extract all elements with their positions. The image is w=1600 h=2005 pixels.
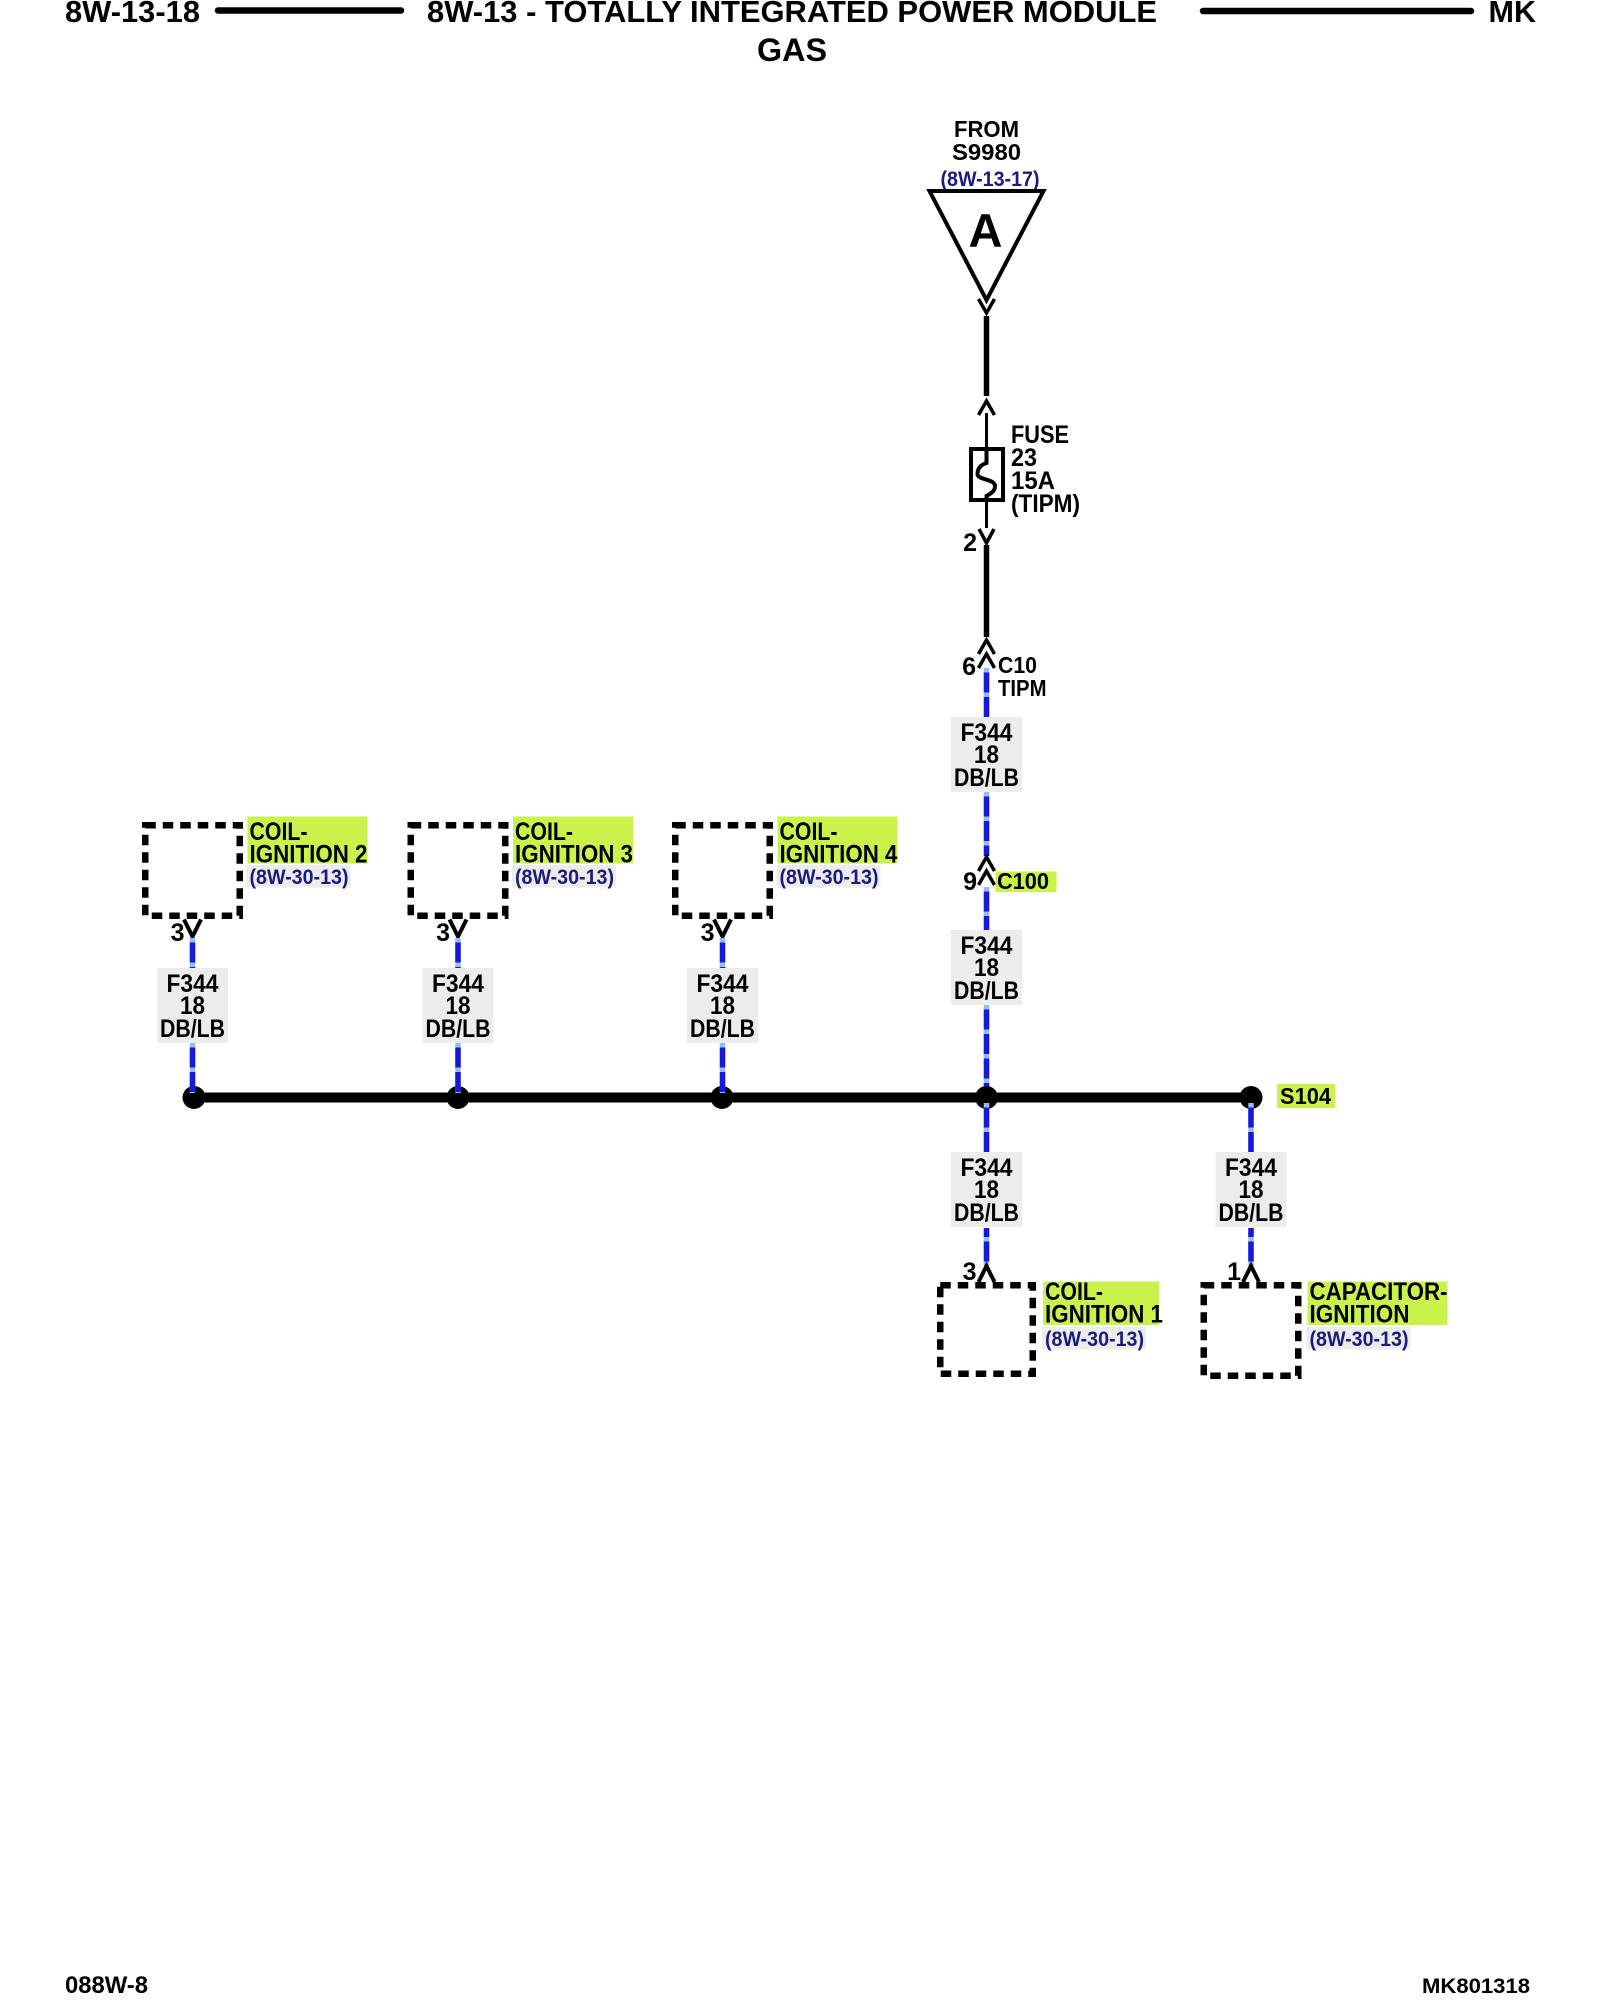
svg-text:(8W-30-13): (8W-30-13) <box>780 865 879 889</box>
svg-text:3: 3 <box>701 919 715 947</box>
svg-text:9: 9 <box>963 868 977 896</box>
svg-text:3: 3 <box>436 919 450 947</box>
svg-text:C100: C100 <box>997 868 1049 894</box>
svg-text:8W-13-18: 8W-13-18 <box>65 0 200 29</box>
svg-text:TIPM: TIPM <box>998 675 1047 701</box>
svg-text:(8W-13-17): (8W-13-17) <box>941 167 1040 191</box>
svg-text:IGNITION: IGNITION <box>1310 1301 1410 1329</box>
svg-text:DB/LB: DB/LB <box>426 1015 491 1043</box>
svg-text:A: A <box>969 204 1003 257</box>
svg-text:DB/LB: DB/LB <box>954 1199 1019 1227</box>
svg-text:(8W-30-13): (8W-30-13) <box>515 865 614 889</box>
svg-text:DB/LB: DB/LB <box>954 977 1019 1005</box>
svg-text:1: 1 <box>1227 1258 1241 1286</box>
svg-text:DB/LB: DB/LB <box>690 1015 755 1043</box>
svg-text:(8W-30-13): (8W-30-13) <box>1045 1327 1144 1351</box>
svg-text:(TIPM): (TIPM) <box>1011 490 1080 518</box>
svg-text:DB/LB: DB/LB <box>954 764 1019 792</box>
svg-text:MK801318: MK801318 <box>1422 1974 1530 1998</box>
svg-text:(8W-30-13): (8W-30-13) <box>250 865 349 889</box>
svg-text:3: 3 <box>963 1258 977 1286</box>
svg-text:IGNITION 1: IGNITION 1 <box>1045 1301 1163 1329</box>
svg-text:DB/LB: DB/LB <box>1219 1199 1284 1227</box>
svg-text:3: 3 <box>171 919 185 947</box>
svg-text:088W-8: 088W-8 <box>65 1972 148 1999</box>
svg-text:6: 6 <box>962 653 976 681</box>
svg-text:(8W-30-13): (8W-30-13) <box>1310 1327 1409 1351</box>
svg-text:S104: S104 <box>1280 1083 1331 1109</box>
svg-text:DB/LB: DB/LB <box>160 1015 225 1043</box>
svg-text:GAS: GAS <box>757 32 827 68</box>
svg-text:2: 2 <box>963 529 977 557</box>
svg-text:S9980: S9980 <box>952 139 1021 165</box>
svg-text:MK: MK <box>1489 0 1537 29</box>
svg-text:8W-13 - TOTALLY INTEGRATED POW: 8W-13 - TOTALLY INTEGRATED POWER MODULE <box>427 0 1157 29</box>
